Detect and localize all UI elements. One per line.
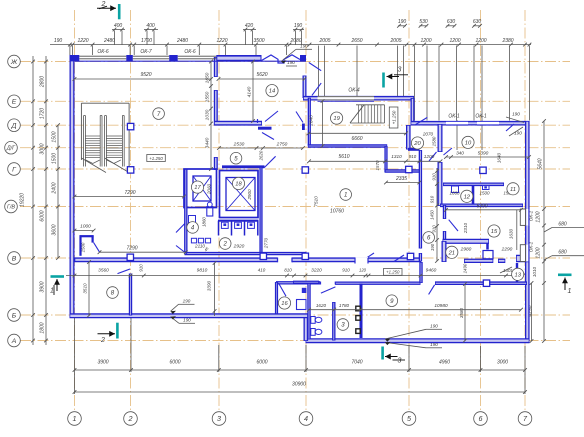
svg-text:2335: 2335	[395, 176, 407, 182]
svg-text:30900: 30900	[292, 382, 306, 388]
svg-text:4960: 4960	[439, 360, 450, 366]
svg-text:2005: 2005	[389, 38, 401, 44]
svg-text:1200: 1200	[536, 247, 542, 258]
svg-text:6000: 6000	[256, 360, 267, 366]
svg-text:2290: 2290	[501, 247, 513, 253]
svg-text:10760: 10760	[330, 209, 344, 215]
svg-text:+1.250: +1.250	[392, 110, 397, 124]
svg-text:9460: 9460	[426, 268, 437, 274]
svg-text:10: 10	[465, 140, 472, 146]
svg-text:190: 190	[183, 318, 191, 323]
svg-text:6000: 6000	[169, 360, 180, 366]
svg-text:1500: 1500	[479, 190, 490, 195]
svg-text:15: 15	[491, 229, 498, 235]
svg-text:2310: 2310	[463, 222, 468, 234]
svg-text:1580: 1580	[432, 136, 437, 146]
svg-text:910: 910	[430, 195, 435, 203]
svg-text:ОК-7: ОК-7	[140, 49, 152, 55]
svg-text:16: 16	[281, 301, 288, 307]
svg-text:2: 2	[128, 414, 133, 423]
svg-text:1500: 1500	[52, 153, 58, 164]
svg-text:1: 1	[568, 288, 572, 295]
svg-text:190: 190	[54, 38, 63, 44]
svg-text:2650: 2650	[350, 38, 362, 44]
svg-text:14: 14	[269, 89, 275, 95]
svg-text:20: 20	[413, 141, 421, 147]
svg-text:1720: 1720	[40, 108, 46, 119]
svg-text:1800: 1800	[40, 322, 46, 333]
svg-text:910: 910	[409, 154, 417, 159]
svg-text:3900: 3900	[40, 281, 46, 292]
svg-text:2005: 2005	[318, 38, 330, 44]
svg-text:1500: 1500	[52, 131, 58, 142]
svg-text:3000: 3000	[40, 143, 46, 154]
svg-text:2750: 2750	[276, 141, 288, 147]
svg-text:910: 910	[432, 173, 437, 181]
svg-text:1000: 1000	[80, 224, 91, 230]
svg-text:12: 12	[464, 194, 471, 200]
svg-text:9520: 9520	[140, 72, 151, 78]
svg-text:1: 1	[50, 288, 54, 295]
svg-text:2770: 2770	[264, 237, 269, 249]
svg-text:Е: Е	[12, 99, 17, 106]
svg-text:6660: 6660	[351, 136, 362, 142]
svg-text:5390: 5390	[476, 203, 487, 209]
svg-text:3000: 3000	[497, 360, 508, 366]
svg-text:1570: 1570	[375, 160, 380, 171]
svg-text:+1.250: +1.250	[386, 270, 400, 275]
svg-text:4: 4	[304, 414, 308, 423]
svg-text:3580: 3580	[459, 307, 464, 318]
svg-text:1200: 1200	[449, 38, 460, 44]
svg-text:810: 810	[284, 268, 292, 273]
svg-text:1010: 1010	[532, 266, 537, 277]
svg-text:400: 400	[146, 23, 155, 29]
svg-text:3390: 3390	[207, 280, 212, 291]
svg-text:1650: 1650	[205, 72, 211, 83]
svg-text:ОК-1: ОК-1	[475, 114, 487, 120]
svg-text:19: 19	[333, 116, 340, 122]
svg-text:410: 410	[258, 268, 266, 273]
svg-text:190: 190	[514, 131, 522, 136]
svg-text:1640: 1640	[497, 152, 502, 163]
svg-text:В: В	[12, 255, 17, 262]
svg-text:3: 3	[341, 322, 345, 329]
svg-text:910: 910	[342, 268, 350, 273]
svg-text:1660: 1660	[449, 190, 460, 195]
svg-text:3900: 3900	[97, 360, 108, 366]
svg-text:5620: 5620	[256, 72, 267, 78]
svg-text:21: 21	[448, 250, 455, 256]
svg-text:3: 3	[398, 67, 402, 74]
svg-text:11: 11	[510, 187, 516, 193]
svg-text:3500: 3500	[253, 38, 264, 44]
svg-text:530: 530	[419, 19, 428, 25]
svg-text:190: 190	[287, 60, 295, 65]
svg-text:3600: 3600	[52, 224, 58, 235]
svg-text:ОК-6: ОК-6	[184, 49, 196, 55]
svg-text:7510: 7510	[314, 196, 320, 207]
svg-text:1780: 1780	[339, 303, 350, 308]
svg-text:Д/Г: Д/Г	[6, 146, 16, 152]
svg-text:120: 120	[359, 268, 367, 273]
svg-text:3220: 3220	[311, 268, 322, 274]
svg-text:190: 190	[398, 19, 407, 25]
svg-text:2110: 2110	[194, 244, 205, 249]
svg-text:400: 400	[114, 23, 123, 29]
svg-text:13: 13	[514, 272, 521, 278]
svg-text:190: 190	[430, 342, 438, 347]
svg-text:5640: 5640	[538, 158, 544, 169]
svg-text:2800: 2800	[40, 76, 46, 88]
svg-text:190: 190	[430, 324, 438, 329]
svg-text:ОК-6: ОК-6	[97, 49, 109, 55]
svg-text:2640: 2640	[309, 115, 315, 127]
svg-text:10980: 10980	[434, 303, 448, 309]
svg-text:Б: Б	[12, 312, 17, 319]
svg-text:190: 190	[300, 44, 308, 49]
svg-text:3560: 3560	[98, 268, 109, 274]
svg-text:680: 680	[558, 222, 567, 228]
svg-text:1220: 1220	[77, 38, 88, 44]
svg-text:17: 17	[194, 185, 201, 191]
svg-text:7290: 7290	[124, 190, 135, 196]
svg-text:2380: 2380	[501, 38, 513, 44]
svg-text:1620: 1620	[316, 303, 327, 308]
svg-text:ОК-1: ОК-1	[448, 114, 460, 120]
svg-text:19220: 19220	[20, 193, 26, 207]
svg-text:910: 910	[432, 225, 437, 233]
svg-text:2530: 2530	[233, 141, 245, 147]
svg-text:ОК-4: ОК-4	[348, 88, 360, 94]
svg-text:+1.250: +1.250	[149, 156, 163, 161]
svg-text:3440: 3440	[205, 137, 211, 148]
svg-text:2060: 2060	[207, 183, 212, 195]
svg-text:1630: 1630	[509, 228, 514, 239]
svg-text:6: 6	[479, 414, 483, 423]
svg-text:2400: 2400	[52, 182, 58, 194]
svg-text:1860: 1860	[202, 217, 207, 227]
svg-text:190: 190	[294, 23, 303, 29]
svg-text:190: 190	[183, 299, 191, 304]
svg-text:2480: 2480	[103, 38, 115, 44]
svg-text:18: 18	[235, 182, 242, 188]
svg-text:9810: 9810	[197, 268, 208, 274]
svg-text:1: 1	[73, 414, 77, 423]
svg-text:3510: 3510	[83, 283, 88, 294]
svg-text:680: 680	[558, 250, 567, 256]
svg-text:5610: 5610	[338, 154, 349, 160]
svg-text:630: 630	[473, 19, 482, 25]
svg-text:1490: 1490	[463, 263, 468, 273]
svg-text:6000: 6000	[40, 210, 46, 221]
svg-text:2980: 2980	[460, 247, 472, 253]
svg-text:1550: 1550	[205, 91, 211, 102]
svg-text:2: 2	[223, 241, 228, 248]
svg-text:Д: Д	[11, 123, 17, 130]
svg-text:5390: 5390	[478, 151, 489, 157]
svg-text:1200: 1200	[424, 154, 435, 159]
svg-text:4140: 4140	[247, 86, 253, 97]
svg-text:1500: 1500	[81, 242, 86, 252]
svg-text:420: 420	[245, 23, 254, 29]
svg-text:340: 340	[456, 151, 464, 156]
svg-text:Ж: Ж	[10, 59, 18, 66]
svg-text:3: 3	[217, 414, 221, 423]
svg-text:1220: 1220	[216, 38, 227, 44]
svg-text:2070: 2070	[422, 132, 434, 137]
svg-text:1450: 1450	[430, 210, 435, 220]
svg-text:190: 190	[430, 243, 435, 251]
svg-text:3: 3	[398, 358, 402, 365]
svg-text:7290: 7290	[126, 246, 137, 252]
svg-text:1310: 1310	[391, 154, 402, 159]
svg-text:7040: 7040	[351, 360, 362, 366]
svg-text:630: 630	[447, 19, 456, 25]
svg-text:2620: 2620	[259, 150, 264, 161]
svg-text:190: 190	[512, 112, 520, 117]
svg-text:2480: 2480	[176, 38, 188, 44]
svg-text:2920: 2920	[233, 244, 245, 250]
svg-text:1200: 1200	[420, 38, 431, 44]
svg-text:1: 1	[344, 192, 347, 199]
svg-text:1200: 1200	[475, 38, 486, 44]
svg-text:1200: 1200	[536, 211, 542, 222]
svg-text:1030: 1030	[205, 109, 211, 120]
svg-text:2: 2	[100, 337, 105, 344]
svg-text:А: А	[11, 338, 17, 345]
svg-text:6: 6	[427, 235, 431, 242]
svg-text:910: 910	[139, 264, 144, 272]
svg-text:2900: 2900	[247, 189, 252, 201]
svg-text:Г/В: Г/В	[7, 204, 15, 210]
